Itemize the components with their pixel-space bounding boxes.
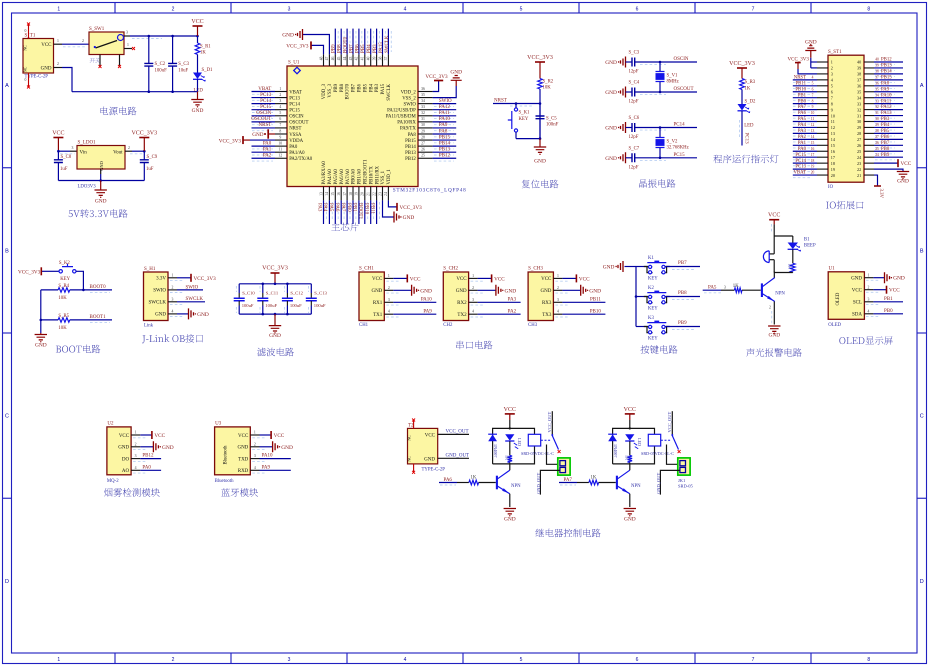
svg-text:S_C4: S_C4	[629, 81, 640, 86]
svg-text:K2: K2	[648, 286, 654, 291]
svg-text:4: 4	[404, 7, 407, 13]
svg-text:S_C3: S_C3	[629, 51, 640, 56]
wire	[626, 61, 633, 63]
svg-text:32: 32	[857, 107, 861, 112]
svg-text:45: 45	[337, 57, 341, 61]
svg-text:PB13: PB13	[405, 151, 416, 156]
power flag VCC U2	[140, 434, 152, 436]
svg-text:KEY: KEY	[519, 117, 529, 122]
svg-text:48: 48	[319, 57, 323, 61]
pin ST1 28	[864, 132, 874, 134]
svg-text:PA9: PA9	[439, 123, 448, 128]
wire net PB13 io-right	[874, 67, 903, 69]
svg-text:NPN: NPN	[631, 484, 641, 489]
power flag VCC_3V3 at VDD_3	[311, 45, 324, 54]
svg-text:33: 33	[421, 105, 425, 109]
svg-text:VCC: VCC	[624, 407, 636, 413]
svg-text:PA7: PA7	[564, 478, 573, 483]
pin U3 1 VCC	[250, 434, 259, 436]
svg-text:8: 8	[867, 7, 870, 13]
svg-text:2: 2	[172, 286, 174, 290]
svg-text:C: C	[5, 414, 9, 420]
pin ST1 12	[817, 126, 828, 128]
svg-text:VCC: VCC	[579, 276, 590, 282]
wire net PB7 top	[352, 29, 354, 55]
svg-text:PA10: PA10	[439, 117, 450, 122]
svg-text:13: 13	[319, 192, 323, 196]
svg-text:1N4007: 1N4007	[613, 444, 618, 458]
svg-text:B: B	[5, 248, 9, 254]
power flag VCC io pin23	[874, 162, 898, 164]
pin ST1 2	[817, 67, 828, 69]
wire net PA1	[252, 151, 276, 153]
svg-text:23: 23	[857, 161, 861, 166]
ground GND crystal row 3	[621, 122, 626, 133]
svg-text:D: D	[5, 579, 9, 585]
pin ST1 36	[864, 85, 874, 87]
svg-text:C: C	[920, 414, 924, 420]
resistor S_R2 10K	[538, 79, 543, 90]
wire net PB3 io-right	[874, 121, 903, 123]
pin ST1 14	[817, 138, 828, 140]
svg-text:PC14: PC14	[674, 123, 686, 128]
wire net PB9 top	[334, 29, 336, 55]
svg-text:1K: 1K	[200, 51, 206, 56]
svg-text:14: 14	[811, 135, 815, 139]
svg-text:VCC_3V3: VCC_3V3	[286, 44, 309, 50]
title IO拓展口	[826, 201, 864, 210]
svg-text:PA5: PA5	[798, 117, 807, 122]
pin U1 19 PB1/A0	[358, 187, 360, 201]
wire net PB5 top	[364, 29, 366, 55]
svg-text:PB11: PB11	[796, 81, 807, 86]
svg-text:PB9: PB9	[334, 83, 339, 92]
pin U1 42 PB6	[358, 54, 360, 66]
ground GND boot	[40, 333, 42, 335]
svg-text:S_H1: S_H1	[144, 267, 156, 272]
svg-text:PA4: PA4	[322, 203, 327, 212]
wire net PA6 bottom	[340, 200, 342, 224]
svg-text:24: 24	[875, 153, 879, 157]
svg-text:26: 26	[857, 143, 861, 148]
svg-text:12pF: 12pF	[629, 100, 639, 105]
svg-text:PA8: PA8	[881, 81, 890, 86]
svg-text:21: 21	[367, 192, 371, 196]
svg-text:44: 44	[343, 57, 347, 61]
svg-text:0: 0	[25, 29, 27, 33]
resistor 1K relay led	[509, 441, 511, 455]
svg-text:VCC: VCC	[372, 277, 383, 282]
svg-text:SWIO: SWIO	[404, 102, 417, 107]
svg-text:BOOT0: BOOT0	[90, 285, 107, 290]
pin ST1 23	[864, 162, 874, 164]
svg-text:VCC: VCC	[425, 433, 436, 438]
svg-text:PA9/TX: PA9/TX	[400, 127, 416, 132]
wire vcc to Vin	[58, 150, 70, 152]
junction	[148, 35, 151, 38]
svg-text:PA9: PA9	[881, 87, 890, 92]
svg-text:30: 30	[875, 117, 879, 121]
wire net VBAT	[252, 91, 276, 93]
pin ST1 7	[817, 97, 828, 99]
svg-text:1: 1	[135, 431, 137, 435]
wire net PA8	[433, 133, 457, 135]
svg-text:PB7: PB7	[881, 141, 890, 146]
pin ST1 6	[817, 91, 828, 93]
resistor 1K relay base	[577, 482, 589, 484]
svg-text:KEY: KEY	[60, 277, 70, 282]
svg-text:22: 22	[857, 167, 861, 172]
svg-text:100uF: 100uF	[265, 303, 277, 308]
svg-text:36: 36	[857, 84, 861, 89]
wire net PB3 top	[376, 29, 378, 55]
svg-text:PB8: PB8	[340, 83, 345, 92]
svg-text:Link: Link	[144, 324, 154, 329]
led S_D1 LED	[193, 73, 202, 80]
svg-text:20: 20	[361, 192, 365, 196]
svg-text:GND: GND	[456, 289, 467, 294]
wire emitter relay	[629, 494, 631, 507]
svg-text:S_LDO1: S_LDO1	[78, 141, 97, 146]
svg-text:20: 20	[831, 173, 835, 178]
svg-text:CH3: CH3	[528, 323, 538, 328]
relay switch arm	[672, 436, 678, 450]
power flag VCC_3V3 at VDDA	[242, 136, 244, 144]
svg-text:27: 27	[857, 137, 861, 142]
svg-text:S_C7: S_C7	[629, 147, 640, 152]
svg-text:PA12/USB/DP: PA12/USB/DP	[387, 109, 416, 114]
wire net PA11 io-right	[874, 103, 903, 105]
svg-text:VCC: VCC	[494, 276, 505, 282]
wire net PC15	[252, 109, 276, 111]
svg-text:PB11/RX: PB11/RX	[375, 165, 380, 184]
pin U1 14 PA4/A0	[328, 187, 330, 201]
wire net PB9 io-right	[874, 156, 903, 158]
button K1 KEY	[636, 266, 648, 268]
wire bottom rail	[239, 313, 311, 315]
pin U1 4 PC15	[275, 109, 287, 111]
ground GND U2	[140, 446, 153, 448]
title 复位电路	[522, 180, 559, 189]
wire net PB11 bottom	[376, 200, 378, 224]
svg-text:NPN: NPN	[775, 292, 785, 297]
svg-text:VCC_OUT: VCC_OUT	[547, 411, 552, 432]
power flag VCC_3V3 indicator	[737, 67, 747, 69]
wire net PB6 io-right	[874, 138, 903, 140]
svg-text:GND: GND	[403, 215, 415, 221]
svg-text:24: 24	[384, 192, 388, 196]
pin U1 34 SWIO	[418, 103, 433, 105]
pin CH1 3 RX1	[384, 301, 393, 303]
svg-text:3.3V: 3.3V	[878, 189, 883, 199]
wire net PA4 io-left	[793, 126, 817, 128]
pin ST1 19	[817, 168, 828, 170]
svg-text:VBAT: VBAT	[289, 90, 302, 95]
title 烟雾检测模块	[104, 488, 160, 497]
svg-text:PA15: PA15	[379, 42, 384, 53]
wire bottom rail alarm	[774, 272, 793, 274]
title 按键电路	[641, 345, 678, 354]
svg-text:PA9: PA9	[423, 309, 432, 314]
wire net PB14	[433, 145, 457, 147]
power flag VCC_3V3 at VDD_2	[433, 81, 439, 92]
svg-text:U3: U3	[215, 422, 222, 427]
power flag VCC U3	[260, 434, 272, 436]
wire net PA1 io-left	[793, 144, 817, 146]
wire net SWCLK top	[387, 29, 389, 55]
relay switch common	[671, 411, 673, 434]
svg-text:2: 2	[279, 93, 281, 97]
transistor Q1 NPN	[761, 283, 763, 297]
svg-text:VCC_3V3: VCC_3V3	[131, 131, 157, 137]
svg-text:PB10: PB10	[795, 87, 806, 92]
svg-text:2: 2	[172, 7, 175, 13]
svg-text:PA7: PA7	[340, 203, 345, 212]
pin CH3 4 TX3	[553, 313, 562, 315]
svg-text:LDO3V3: LDO3V3	[78, 185, 97, 190]
svg-text:S_C10: S_C10	[242, 291, 255, 296]
svg-text:GND: GND	[851, 277, 862, 282]
svg-text:GND: GND	[155, 313, 166, 318]
pin ST1 16	[817, 150, 828, 152]
svg-text:PB6: PB6	[355, 44, 360, 53]
connector S_CH1 CH1	[359, 272, 384, 321]
wire net PB13	[433, 151, 457, 153]
pin CH3 1 VCC	[553, 277, 562, 279]
svg-text:SWIO: SWIO	[186, 285, 199, 290]
pin ST1 1	[817, 61, 828, 63]
svg-text:A: A	[920, 83, 924, 89]
svg-text:PB3: PB3	[881, 117, 890, 122]
svg-text:VCC_3V3: VCC_3V3	[18, 269, 41, 275]
svg-text:100uF: 100uF	[290, 303, 302, 308]
pin OLED 4 SDA	[864, 313, 873, 315]
wire emitter relay	[509, 494, 511, 507]
svg-text:39: 39	[875, 64, 879, 68]
wire net PB0 io-left	[793, 103, 817, 105]
capacitor S_C2 100uF	[148, 36, 150, 63]
wire net PC13 io-left	[793, 168, 817, 170]
title 继电器控制电路	[536, 529, 601, 538]
svg-text:1K: 1K	[745, 87, 751, 92]
svg-text:VCC: VCC	[901, 161, 912, 167]
wire net SWIO	[433, 103, 457, 105]
title 程序运行指示灯	[713, 155, 778, 164]
svg-text:19: 19	[831, 167, 835, 172]
pin T1 VCC 1	[54, 43, 63, 45]
svg-text:PA2: PA2	[798, 135, 807, 140]
pin T2 VCC net VCC_OUT	[438, 433, 469, 435]
wire net PB1	[873, 301, 903, 303]
title 滤波电路	[257, 348, 294, 357]
svg-text:VSSA: VSSA	[289, 133, 302, 138]
svg-text:DO: DO	[122, 457, 130, 462]
relay coil SRD-05VDC-SL-C	[648, 434, 660, 446]
svg-text:11: 11	[278, 148, 282, 152]
svg-text:38: 38	[875, 70, 879, 74]
wire net OSCIN	[252, 115, 276, 117]
svg-text:2: 2	[868, 285, 870, 289]
svg-text:12pF: 12pF	[629, 165, 639, 170]
pin ST1 22	[864, 168, 874, 170]
svg-text:GND: GND	[624, 517, 636, 523]
wire net PC15 io-left	[793, 156, 817, 158]
svg-text:5: 5	[279, 111, 281, 115]
transistor relay NPN	[616, 476, 618, 490]
ground GND at VSS_3	[303, 35, 330, 55]
svg-text:GND: GND	[589, 288, 601, 294]
svg-text:U1: U1	[829, 267, 836, 272]
capacitor S_C11 100uF	[262, 284, 264, 293]
svg-text:19: 19	[355, 192, 359, 196]
svg-text:PB11: PB11	[590, 298, 601, 303]
capacitor S_C4 12pF	[632, 88, 635, 97]
crystal S_V2 32.768KHz	[659, 128, 661, 138]
wire net PB10	[562, 313, 605, 315]
ground GND crystal row 2	[621, 87, 626, 98]
svg-text:S_C9: S_C9	[147, 155, 158, 160]
svg-text:27: 27	[875, 135, 879, 139]
svg-text:PA11: PA11	[881, 99, 892, 104]
pin ST1 40	[864, 61, 874, 63]
pin ST1 26	[864, 144, 874, 146]
pin U1 3 PC14	[275, 103, 287, 105]
relay switch common	[551, 411, 553, 434]
svg-text:SRD-05: SRD-05	[678, 484, 694, 489]
svg-text:2: 2	[769, 306, 771, 310]
ground GND filter	[274, 314, 276, 326]
svg-text:18: 18	[349, 192, 353, 196]
wire net BOOT0	[70, 289, 112, 291]
wire net PA15 top	[382, 29, 384, 55]
ground GND relay	[624, 509, 636, 514]
wire GND_OUT	[660, 470, 680, 494]
relay switch arm	[552, 436, 558, 450]
wire net SWCLK	[177, 301, 205, 303]
svg-text:31: 31	[875, 111, 879, 115]
svg-text:SWCLK: SWCLK	[387, 83, 392, 100]
svg-text:12: 12	[811, 123, 815, 127]
crystal S_V1 8MHz	[659, 62, 661, 71]
svg-text:OSCOUT: OSCOUT	[251, 117, 271, 122]
svg-text:1K: 1K	[624, 455, 629, 460]
button K2 KEY	[636, 296, 648, 298]
svg-text:PB14: PB14	[439, 141, 451, 146]
ground GND at VSS_2	[433, 86, 457, 98]
svg-text:PB12: PB12	[881, 58, 892, 63]
svg-text:VDD_1: VDD_1	[387, 169, 392, 185]
svg-text:AO: AO	[122, 469, 130, 474]
svg-text:S_C13: S_C13	[314, 291, 327, 296]
svg-text:VCC: VCC	[238, 434, 249, 439]
pin LDO1 Vout 2	[125, 150, 132, 152]
pin CH2 1 VCC	[469, 277, 478, 279]
capacitor S_C6 12pF	[632, 123, 635, 132]
svg-text:1uF: 1uF	[60, 167, 68, 172]
pin U1 45 PB8	[340, 54, 342, 66]
svg-text:3: 3	[868, 298, 870, 302]
svg-text:KEY: KEY	[648, 277, 658, 282]
svg-text:BEEP: BEEP	[804, 243, 816, 248]
svg-text:PB0: PB0	[884, 309, 893, 314]
svg-text:1: 1	[57, 7, 60, 13]
regulator S_LDO1 LDO3V3	[77, 146, 125, 170]
svg-text:6: 6	[812, 87, 814, 91]
svg-text:NRST: NRST	[494, 99, 507, 104]
svg-text:18: 18	[831, 161, 835, 166]
pin CH2 2 GND	[469, 289, 478, 291]
wire vertical keys	[635, 267, 637, 327]
svg-text:PC15: PC15	[795, 153, 806, 158]
pin LDO1 Vin 3	[70, 150, 77, 152]
svg-text:3: 3	[254, 454, 256, 458]
wire	[539, 89, 541, 139]
svg-text:BOOT0: BOOT0	[346, 83, 351, 99]
svg-text:OSCIN: OSCIN	[674, 57, 689, 62]
svg-text:PC15: PC15	[674, 153, 686, 158]
svg-text:PB5: PB5	[361, 44, 366, 53]
pin U1 6 OSCOUT	[275, 121, 287, 123]
svg-text:GND: GND	[420, 288, 432, 294]
svg-text:VCC_3V3: VCC_3V3	[788, 58, 810, 63]
svg-text:PB6: PB6	[881, 135, 890, 140]
svg-text:PA8: PA8	[408, 133, 417, 138]
pin U1 38 PA15	[382, 54, 384, 66]
pin ST1 24	[864, 156, 874, 158]
svg-text:2: 2	[172, 657, 175, 663]
svg-text:3: 3	[72, 146, 74, 150]
ground GND at VSSA	[267, 129, 269, 138]
capacitor S_C13 100uF	[310, 284, 312, 293]
connector JK screw terminal	[558, 458, 570, 475]
svg-text:S_CH2: S_CH2	[443, 266, 458, 271]
wire collector relay	[509, 464, 511, 470]
wire net PB8 io-right	[874, 150, 903, 152]
pin U2 4 AO	[131, 469, 140, 471]
power flag VCC CH1	[393, 277, 407, 279]
svg-text:S_R4: S_R4	[58, 284, 69, 289]
svg-text:PA2: PA2	[263, 154, 272, 159]
svg-text:3: 3	[472, 298, 474, 302]
svg-text:VCC: VCC	[191, 19, 203, 25]
pin U2 3 DO	[131, 458, 140, 460]
svg-text:1: 1	[57, 39, 59, 43]
svg-text:PA5: PA5	[708, 285, 717, 290]
svg-text:21: 21	[857, 173, 861, 178]
svg-text:12pF: 12pF	[629, 135, 639, 140]
svg-text:VDDA: VDDA	[289, 139, 303, 144]
wire collector relay	[629, 464, 631, 470]
pin U1 41 PB5	[364, 54, 366, 66]
svg-text:12: 12	[278, 154, 282, 158]
svg-text:B: B	[920, 248, 924, 254]
svg-text:10K: 10K	[543, 86, 552, 91]
ground GND CH1	[393, 289, 411, 291]
wire net PB11	[562, 301, 605, 303]
svg-text:GND_OUT: GND_OUT	[656, 473, 661, 494]
title J-Link OB接口	[142, 334, 203, 343]
svg-text:GND: GND	[281, 445, 293, 451]
svg-text:PA5: PA5	[328, 203, 333, 212]
wire	[626, 157, 633, 159]
svg-text:TYPE-C-2P: TYPE-C-2P	[422, 468, 446, 473]
pin ST1 25	[864, 150, 874, 152]
wire net PA10	[433, 121, 457, 123]
wire net NRST io-left	[793, 79, 817, 81]
svg-text:PC14: PC14	[289, 102, 300, 107]
wire net PA5 io-left	[793, 121, 817, 123]
wire net PB14 io-right	[874, 73, 903, 75]
